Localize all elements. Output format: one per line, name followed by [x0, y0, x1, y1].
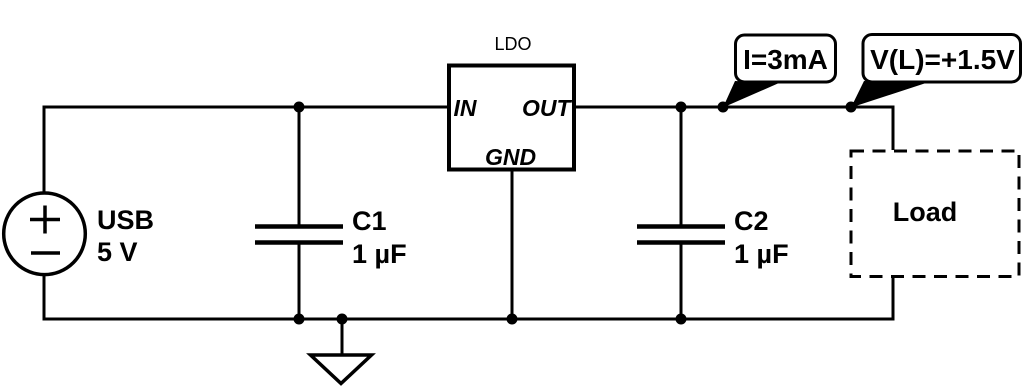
junction: current probe node (I=3mA) [718, 102, 729, 113]
wire: source V1 positive lead (vertical) [43, 106, 46, 194]
svg-text:OUT: OUT [522, 95, 573, 121]
wire: ground stub [341, 319, 344, 354]
svg-text:C1: C1 [352, 206, 387, 236]
junction: C2 bottom node [676, 314, 687, 325]
svg-text:GND: GND [485, 144, 536, 170]
wire: C2 top lead [680, 107, 683, 227]
wire: Load bottom lead (vertical) [892, 277, 895, 321]
svg-text:V(L)=+1.5V: V(L)=+1.5V [870, 44, 1015, 75]
junction: C1 bottom node [294, 314, 305, 325]
junction: ground tap node [337, 314, 348, 325]
svg-text:IN: IN [454, 95, 477, 121]
svg-text:5 V: 5 V [97, 237, 138, 267]
svg-text:1 µF: 1 µF [352, 239, 407, 269]
junction: C2 top node [676, 102, 687, 113]
wire: bottom ground rail [44, 318, 893, 321]
junction: voltage probe node V(L) [846, 102, 857, 113]
svg-text:LDO: LDO [494, 34, 531, 54]
capacitor C1 [255, 227, 343, 243]
svg-text:I=3mA: I=3mA [743, 44, 828, 75]
load block (dashed box) [851, 151, 1019, 277]
capacitor C2 [637, 227, 725, 243]
junction: LDO GND bottom node [507, 314, 518, 325]
wire: source V1 negative lead (vertical) [43, 275, 46, 321]
wire: C1 top lead [298, 107, 301, 227]
ground symbol [311, 355, 372, 384]
svg-text:Load: Load [893, 197, 958, 227]
wire: vertical drop to Load top [892, 106, 895, 151]
junction: C1 top node [294, 102, 305, 113]
callout box: I=3mA [736, 35, 836, 82]
wire: C1 bottom lead [298, 242, 301, 319]
op-amp / regulator U1 (LDO) box [449, 66, 574, 170]
wire: top rail from source V1 to LDO IN pin [44, 106, 447, 109]
wire: LDO OUT to load corner (top rail right) [576, 106, 893, 109]
wire: C2 bottom lead [680, 242, 683, 319]
svg-text:1 µF: 1 µF [734, 239, 789, 269]
voltage source V1 (USB) [4, 193, 86, 275]
wire: LDO GND lead (vertical) [511, 170, 514, 319]
callout tail for current annotation I=3mA [723, 81, 779, 108]
svg-text:USB: USB [97, 205, 154, 235]
svg-text:C2: C2 [734, 206, 769, 236]
callout box: V(L)=+1.5V [863, 35, 1021, 83]
callout tail for voltage annotation V(L) [851, 81, 926, 108]
